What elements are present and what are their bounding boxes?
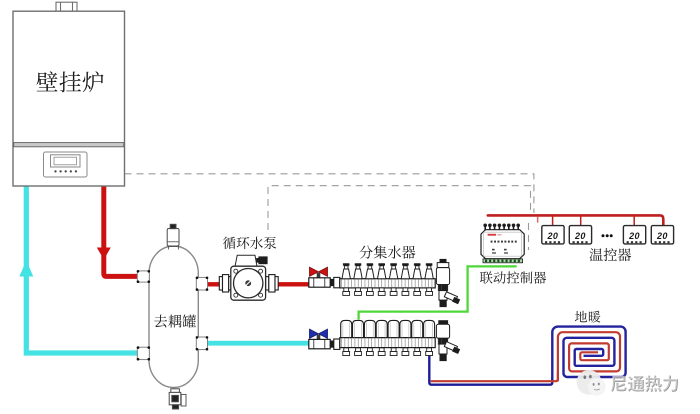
lower manifold outlet 7: [414, 348, 421, 356]
wire: dashed control line boiler to controller: [125, 174, 534, 213]
tank label 去耦罐: [154, 315, 196, 328]
pump terminal connector: [258, 256, 267, 264]
lower manifold end assembly: [436, 321, 459, 361]
panel buttons: [54, 170, 77, 172]
manifold label 分集水器: [359, 246, 415, 259]
lower manifold bar (return manifold): [340, 338, 435, 348]
wire: red thermostat bus: [488, 215, 664, 225]
boiler label 壁挂炉: [37, 71, 104, 92]
upper manifold valve 4: [378, 263, 386, 279]
tank left red inlet stub: [137, 271, 149, 282]
pump label 循环水泵: [223, 237, 276, 250]
pump U1 body 循环水泵: [231, 266, 266, 300]
tank bottom drain valve: [169, 389, 186, 409]
thermostat TH3: [623, 226, 645, 244]
controller label 联动控制器: [480, 271, 546, 283]
upper manifold valve 5: [389, 263, 397, 279]
floor coil red spiral (supply): [558, 332, 620, 381]
wire: bus drop to thermostat 2: [580, 215, 582, 225]
upper manifold outlet 2: [355, 288, 362, 296]
svg-text:20: 20: [574, 231, 586, 241]
upper manifold outlet 7: [414, 288, 421, 296]
wire: blue return line from lower manifold to floor coil: [429, 350, 552, 385]
tank left cyan inlet stub: [137, 347, 149, 359]
lower manifold outlet 3: [367, 348, 374, 356]
boiler control panel: [44, 152, 88, 177]
thermostat TH2: [569, 226, 591, 244]
upper manifold valve 7: [413, 263, 421, 279]
upper manifold outlet 3: [367, 288, 374, 296]
wire: bus drop to thermostat 3: [633, 215, 635, 225]
lower manifold actuator 1: [341, 320, 352, 337]
svg-text:20: 20: [628, 231, 640, 241]
controller green terminal strip: [483, 259, 523, 263]
floor heating label 地暖: [575, 311, 601, 323]
upper manifold valve 2: [354, 263, 362, 279]
lower manifold actuator 8: [424, 320, 435, 337]
lower manifold actuator 7: [412, 320, 423, 337]
boiler flue pipe: [56, 2, 77, 11]
lower manifold outlet 2: [355, 348, 362, 356]
tank right red outlet stub: [196, 277, 207, 290]
upper manifold outlet 1: [343, 288, 350, 296]
svg-text:20: 20: [656, 231, 668, 241]
lower manifold actuator 2: [353, 320, 364, 337]
upper manifold bar (supply manifold): [340, 279, 435, 288]
cyan flow arrow (up): [19, 261, 33, 277]
thermostat TH1: [542, 226, 564, 244]
lower manifold outlet 1: [343, 348, 350, 356]
wire: green control cable controller to actuators: [359, 266, 517, 319]
valve V2 blue ball valve (return): [309, 329, 340, 349]
lower manifold actuator 5: [388, 320, 399, 337]
lower manifold outlet 5: [390, 348, 397, 356]
upper manifold end: air vent + drain: [436, 259, 459, 306]
upper manifold outlet 8: [426, 288, 433, 296]
wire: cyan return pipe tank to lower manifold: [207, 341, 311, 346]
upper manifold outlet 6: [402, 288, 409, 296]
thermostat TH4: [651, 226, 673, 244]
ellipsis between thermostats: [602, 234, 613, 237]
svg-text:20: 20: [546, 231, 558, 241]
lower manifold outlet 8: [426, 348, 433, 356]
decoupling tank 去耦罐: [149, 246, 198, 388]
controller brand text (red): [488, 234, 497, 236]
upper manifold outlet 5: [390, 288, 397, 296]
lower manifold outlet 4: [378, 348, 385, 356]
boiler lower panel separator: [14, 143, 124, 147]
wire: cyan return pipe from decoupling tank to boiler: [26, 186, 137, 353]
upper manifold valve 6: [401, 263, 409, 279]
watermark logo circles: [577, 370, 606, 396]
upper manifold outlet 4: [378, 288, 385, 296]
lower manifold actuator 3: [364, 320, 375, 337]
upper manifold valve 8: [425, 263, 433, 279]
boiler 壁挂炉 body: [13, 11, 125, 186]
wire: red supply pipe tank to pump to manifold: [207, 282, 310, 286]
thermostat label 温控器: [590, 248, 632, 261]
upper manifold valve 1: [342, 263, 350, 279]
bus drop to controller area: [537, 217, 539, 223]
valve V1 red ball valve (supply): [309, 267, 340, 288]
floor coil blue spiral (return): [552, 327, 625, 380]
lower manifold outlet 6: [402, 348, 409, 356]
wire: bus drop to thermostat 1: [552, 215, 554, 225]
watermark text highlight: [610, 375, 677, 391]
wire: dashed stub right of controller: [528, 223, 530, 250]
tank top air vent: [167, 224, 179, 249]
pump terminal box: [235, 255, 257, 266]
pump right union nut: [266, 275, 279, 292]
wire: dashed control line pump to controller: [268, 186, 531, 230]
upper manifold valve 3: [366, 263, 374, 279]
lower manifold actuator 6: [400, 320, 411, 337]
watermark text 尼通热力: [611, 376, 678, 392]
lower manifold actuator 4: [376, 320, 387, 337]
pump left union nut: [219, 275, 232, 292]
tank right cyan outlet stub: [196, 337, 207, 350]
controller U2 联动控制器: [483, 224, 520, 231]
controller LED row: [491, 241, 517, 254]
wire: red supply line to floor coil: [431, 372, 558, 382]
wire: red supply pipe from boiler to decoupling tank: [104, 186, 138, 276]
red flow arrow (down): [97, 248, 111, 260]
